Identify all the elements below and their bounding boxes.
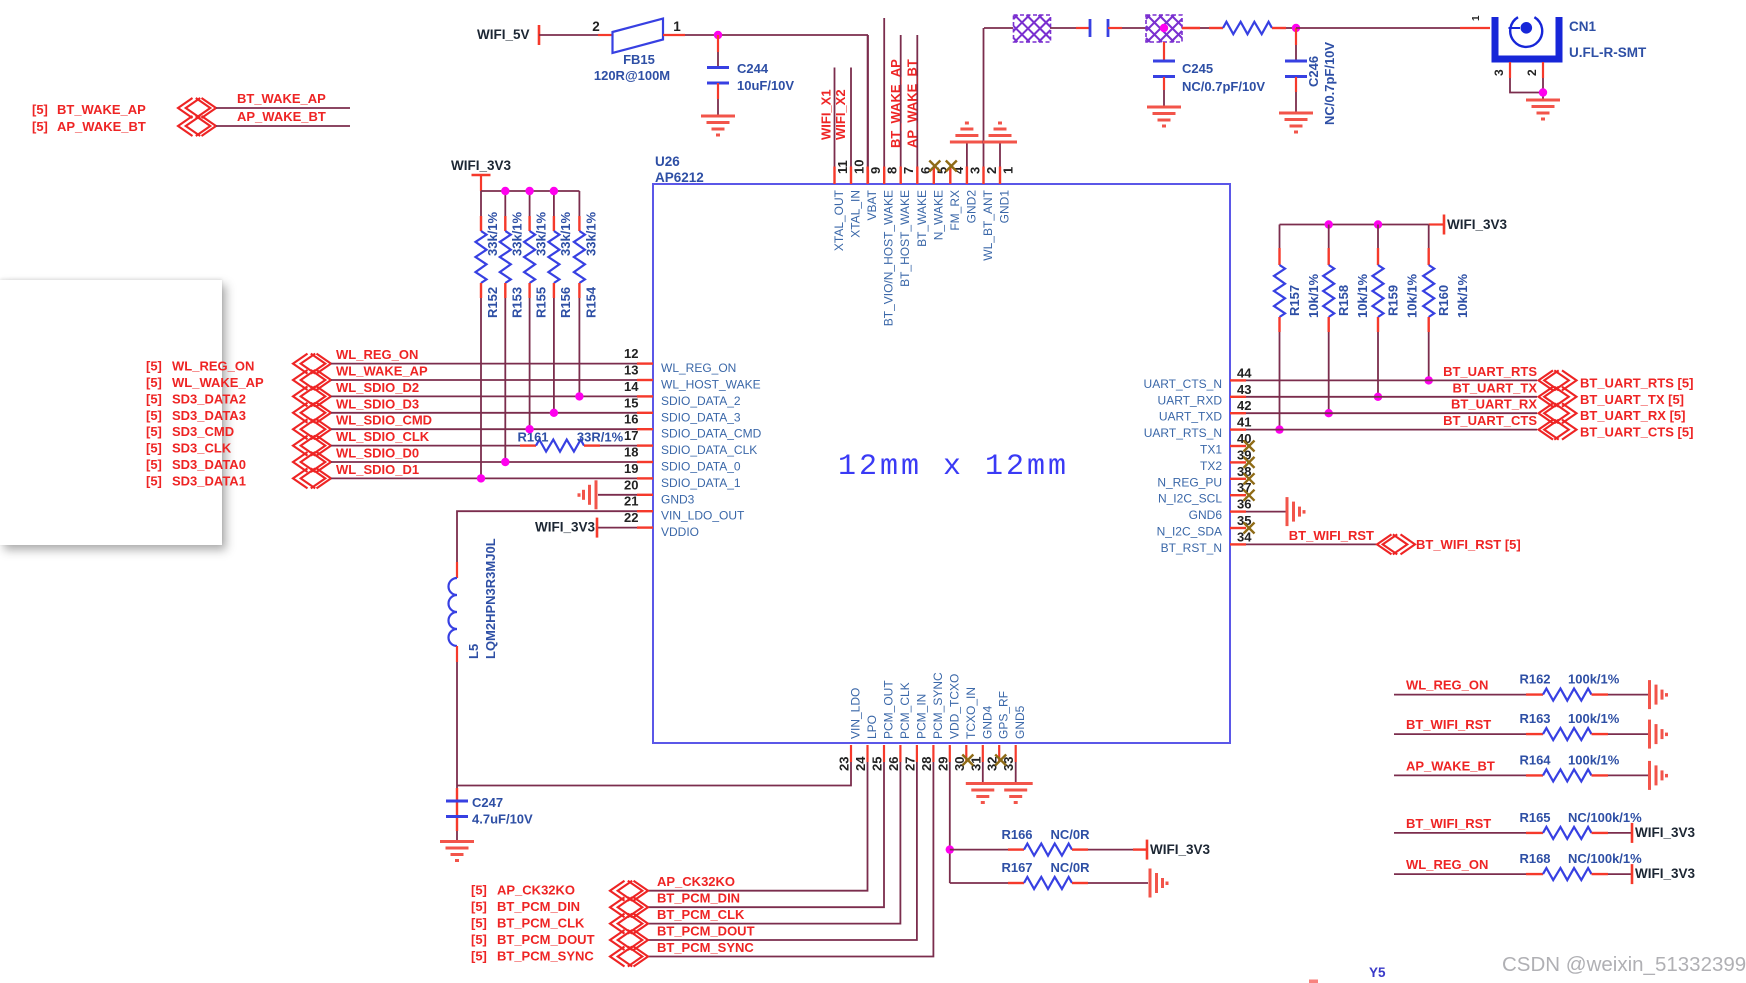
U26 pin 43 (UART_RXD)	[1230, 396, 1246, 398]
svg-text:BT_WAKE_AP: BT_WAKE_AP	[57, 102, 146, 117]
inductor L5 LQM2HPN3R3MJ0L	[456, 562, 458, 578]
svg-text:BT_PCM_DIN: BT_PCM_DIN	[657, 891, 740, 906]
U26 pin 33 (GND5)	[1015, 745, 1017, 762]
svg-text:WL_REG_ON: WL_REG_ON	[172, 359, 254, 374]
svg-text:BT_UART_RX: BT_UART_RX	[1451, 397, 1537, 412]
wire VDD_TCXO (pin 29) down to R166/R167	[949, 762, 951, 883]
wire WL_BT_ANT (pin 2)	[983, 28, 985, 167]
wire PCM_IN (pin 27) to BT_PCM_DOUT	[648, 762, 917, 940]
power flag WIFI_3V3 at R166	[1146, 840, 1149, 860]
svg-text:LQM2HPN3R3MJ0L: LQM2HPN3R3MJ0L	[483, 538, 498, 659]
resistor R158 10k/1%	[1328, 225, 1330, 249]
svg-text:9: 9	[868, 167, 883, 174]
wire XTAL_IN (pin 10) WIFI_X2	[850, 68, 852, 167]
resistor R154 33k/1%	[578, 191, 580, 216]
sideways ground at R167	[1150, 869, 1167, 898]
svg-text:BT_UART_TX: BT_UART_TX	[1452, 380, 1537, 395]
no-connect X pins 40,39,38,37,35	[1244, 441, 1255, 452]
ground below C247	[440, 842, 474, 861]
svg-text:12mm x 12mm: 12mm x 12mm	[838, 450, 1069, 484]
sideways ground at R162	[1650, 680, 1667, 709]
ground below C246	[1279, 113, 1313, 132]
IC U26 AP6212 body	[653, 184, 1230, 743]
series capacitor (antenna)	[1090, 19, 1108, 37]
svg-text:TX1: TX1	[1200, 443, 1222, 457]
svg-text:L5: L5	[466, 644, 481, 659]
svg-text:R154: R154	[583, 286, 598, 318]
resistor R165 NC/100k/1%	[1543, 827, 1592, 839]
svg-text:SD3_CMD: SD3_CMD	[172, 424, 234, 439]
svg-text:PCM_CLK: PCM_CLK	[898, 682, 912, 739]
svg-text:10k/1%: 10k/1%	[1355, 273, 1370, 318]
wire WL_SDIO_CLK	[331, 445, 520, 447]
resistor R163 100k/1%	[1543, 728, 1592, 740]
svg-text:R152: R152	[485, 287, 500, 318]
wire BT_UART_RTS	[1246, 379, 1537, 381]
svg-text:WIFI_3V3: WIFI_3V3	[1150, 842, 1211, 857]
svg-text:[5]: [5]	[146, 391, 162, 406]
svg-text:1: 1	[1471, 15, 1482, 21]
wire PCM_OUT (pin 25) to BT_PCM_DIN	[648, 762, 884, 907]
svg-text:PCM_OUT: PCM_OUT	[882, 680, 896, 739]
svg-text:BT_UART_RX [5]: BT_UART_RX [5]	[1580, 408, 1685, 423]
svg-text:R165: R165	[1519, 810, 1550, 825]
svg-text:33k/1%: 33k/1%	[485, 211, 500, 256]
svg-text:VDDIO: VDDIO	[661, 525, 699, 539]
svg-text:WIFI_3V3: WIFI_3V3	[1447, 217, 1508, 232]
wire WL_SDIO_D0	[331, 461, 637, 463]
no-connect X pin 32	[995, 755, 1006, 766]
ground above pin 3	[950, 123, 984, 142]
junction node CN1 ground	[1539, 88, 1547, 96]
svg-text:16: 16	[624, 412, 638, 427]
wire WIFI_5V to FB15	[539, 34, 598, 36]
ground below pin 33	[999, 784, 1033, 803]
U26 pin 24 (LPO)	[866, 745, 868, 762]
wire VDD_TCXO to R166	[950, 849, 1008, 851]
svg-text:VDD_TCXO: VDD_TCXO	[947, 674, 961, 739]
svg-text:13: 13	[624, 363, 638, 378]
ground below CN1	[1526, 100, 1560, 119]
svg-text:[5]: [5]	[146, 473, 162, 488]
svg-text:WL_WAKE_AP: WL_WAKE_AP	[172, 375, 264, 390]
svg-text:UART_CTS_N: UART_CTS_N	[1144, 377, 1222, 391]
svg-text:BT_VIO/N_HOST_WAKE: BT_VIO/N_HOST_WAKE	[882, 190, 896, 326]
U26 pin 29 (VDD_TCXO)	[949, 745, 951, 762]
U26 pin 1 (GND1)	[999, 167, 1001, 185]
U26 pin 35 (N_I2C_SDA)	[1230, 527, 1246, 529]
svg-text:R158: R158	[1336, 285, 1351, 316]
svg-text:11: 11	[835, 160, 850, 174]
svg-text:AP_WAKE_BT: AP_WAKE_BT	[905, 59, 920, 148]
svg-text:[5]: [5]	[471, 932, 487, 947]
svg-text:R168: R168	[1519, 851, 1550, 866]
U26 pin 21 (VIN_LDO_OUT)	[637, 510, 653, 512]
svg-text:40: 40	[1237, 431, 1251, 446]
svg-text:27: 27	[902, 757, 917, 771]
svg-text:1: 1	[1001, 167, 1016, 174]
svg-text:BT_PCM_SYNC: BT_PCM_SYNC	[497, 949, 594, 964]
resistor R155 33k/1%	[529, 191, 531, 216]
svg-text:WL_SDIO_D3: WL_SDIO_D3	[336, 396, 419, 411]
svg-text:BT_WAKE_AP: BT_WAKE_AP	[888, 59, 903, 148]
svg-text:BT_WIFI_RST: BT_WIFI_RST	[1289, 528, 1374, 543]
svg-text:[5]: [5]	[471, 883, 487, 898]
wire BT_UART_RX	[1246, 412, 1537, 414]
U26 pin 37 (N_I2C_SCL)	[1230, 494, 1246, 496]
U26 pin 2 (WL_BT_ANT)	[982, 167, 984, 185]
capacitor C245 NC/0.7pF/10V	[1163, 42, 1165, 61]
svg-text:12: 12	[624, 346, 638, 361]
wire XTAL_OUT (pin 11) WIFI_X1	[834, 68, 836, 167]
capacitor C244 10uF/10V	[717, 35, 719, 52]
pull-up bus wire	[481, 190, 579, 192]
svg-text:2: 2	[984, 167, 999, 174]
U26 pin 19 (SDIO_DATA_1)	[637, 477, 653, 479]
wire WL_SDIO_CMD	[331, 428, 637, 430]
wire WL_SDIO_D1	[331, 477, 637, 479]
svg-text:[5]: [5]	[146, 408, 162, 423]
svg-text:7: 7	[901, 167, 916, 174]
svg-text:AP_CK32KO: AP_CK32KO	[497, 883, 575, 898]
svg-text:WL_SDIO_D1: WL_SDIO_D1	[336, 462, 419, 477]
power flag WIFI_3V3 (UART bus)	[1443, 215, 1446, 235]
svg-text:BT_UART_CTS: BT_UART_CTS	[1443, 413, 1537, 428]
svg-text:33R/1%: 33R/1%	[577, 430, 624, 445]
resistor R156 33k/1%	[553, 191, 555, 216]
crystal Y5 partial mark	[1309, 980, 1318, 983]
antenna series inductor (zigzag)	[1209, 27, 1223, 29]
svg-text:WL_SDIO_D0: WL_SDIO_D0	[336, 446, 419, 461]
svg-text:WL_WAKE_AP: WL_WAKE_AP	[336, 364, 428, 379]
svg-text:BT_WIFI_RST: BT_WIFI_RST	[1406, 717, 1491, 732]
wire LPO (pin 24) to AP_CK32KO	[648, 762, 868, 891]
svg-text:BT_WIFI_RST: BT_WIFI_RST	[1406, 816, 1491, 831]
resistor R164 100k/1%	[1543, 769, 1592, 781]
svg-text:SD3_DATA1: SD3_DATA1	[172, 473, 246, 488]
svg-text:BT_UART_RTS: BT_UART_RTS	[1443, 364, 1537, 379]
svg-text:R167: R167	[1001, 860, 1032, 875]
wire WL_SDIO_D3	[331, 412, 637, 414]
CN1 pin 2	[1542, 62, 1544, 78]
wire GND4 (pin 31)	[982, 762, 984, 784]
svg-text:[5]: [5]	[32, 119, 48, 134]
wire AP_WAKE_BT	[216, 125, 350, 127]
svg-text:TCXO_IN: TCXO_IN	[964, 687, 978, 739]
svg-text:2: 2	[1525, 69, 1539, 76]
svg-text:4.7uF/10V: 4.7uF/10V	[472, 812, 533, 827]
wire PCM_SYNC (pin 28) to BT_PCM_SYNC	[648, 762, 933, 957]
svg-text:18: 18	[624, 445, 638, 460]
svg-text:2: 2	[592, 19, 600, 34]
wire GND2 (pin 3)	[966, 142, 968, 167]
svg-text:10k/1%: 10k/1%	[1455, 273, 1470, 318]
svg-text:33k/1%: 33k/1%	[583, 211, 598, 256]
svg-text:SDIO_DATA_3: SDIO_DATA_3	[661, 410, 741, 424]
wire WL_SDIO_D2	[331, 395, 637, 397]
svg-text:[5]: [5]	[32, 102, 48, 117]
U26 pin 44 (UART_CTS_N)	[1230, 379, 1246, 381]
svg-text:35: 35	[1237, 513, 1251, 528]
svg-text:WL_SDIO_D2: WL_SDIO_D2	[336, 380, 419, 395]
junction node VDD_TCXO/R166	[946, 845, 954, 853]
U26 pin 40 (TX1)	[1230, 445, 1246, 447]
junction nodes pull-ups to SDIO wires	[477, 474, 485, 482]
U26 pin 6 (BT_WAKE)	[916, 167, 918, 185]
svg-text:GPS_RF: GPS_RF	[997, 691, 1011, 739]
svg-text:N_REG_PU: N_REG_PU	[1157, 475, 1222, 489]
wire BT_UART_CTS	[1246, 429, 1537, 431]
svg-text:GND6: GND6	[1189, 508, 1223, 522]
svg-text:BT_HOST_WAKE: BT_HOST_WAKE	[898, 190, 912, 287]
U26 pin 23 (VIN_LDO)	[850, 745, 852, 762]
svg-text:SDIO_DATA_1: SDIO_DATA_1	[661, 476, 741, 490]
svg-text:AP_WAKE_BT: AP_WAKE_BT	[237, 109, 326, 124]
U26 pin 25 (PCM_OUT)	[883, 745, 885, 762]
wire	[1182, 27, 1200, 29]
power flag WIFI_3V3 at R168	[1631, 864, 1634, 884]
ferrite bead FB15	[613, 19, 664, 54]
svg-text:GND1: GND1	[998, 190, 1012, 224]
svg-text:VIN_LDO_OUT: VIN_LDO_OUT	[661, 509, 745, 523]
U26 pin 30 (TCXO_IN)	[965, 745, 967, 762]
svg-text:WL_BT_ANT: WL_BT_ANT	[981, 189, 995, 260]
wire GND5 (pin 33)	[1015, 762, 1017, 784]
svg-text:42: 42	[1237, 398, 1251, 413]
svg-text:WL_SDIO_CLK: WL_SDIO_CLK	[336, 429, 430, 444]
svg-text:R157: R157	[1287, 285, 1302, 316]
svg-text:Y5: Y5	[1369, 965, 1386, 980]
sideways ground GND6	[1287, 497, 1304, 526]
svg-text:24: 24	[853, 756, 868, 771]
wire PCM_CLK (pin 26) to BT_PCM_CLK	[648, 762, 900, 924]
svg-text:[5]: [5]	[146, 457, 162, 472]
wire WL_BT_ANT to antenna network	[984, 27, 1013, 29]
U26 pin 8 (BT_VIO/N_HOST_WAKE)	[883, 167, 885, 185]
wire BT_UART_TX	[1246, 396, 1537, 398]
svg-text:120R@100M: 120R@100M	[594, 68, 670, 83]
connector CN1 U.FL-R-SMT	[1495, 17, 1559, 59]
wire WL_REG_ON	[331, 363, 637, 365]
U26 pin 41 (UART_RTS_N)	[1230, 428, 1246, 430]
svg-text:AP_CK32KO: AP_CK32KO	[657, 874, 735, 889]
resistor R166 NC/0R	[1008, 848, 1024, 850]
svg-text:17: 17	[624, 428, 638, 443]
svg-text:SD3_DATA0: SD3_DATA0	[172, 457, 246, 472]
svg-text:R163: R163	[1519, 711, 1550, 726]
svg-text:BT_PCM_DIN: BT_PCM_DIN	[497, 899, 580, 914]
svg-text:PCM_SYNC: PCM_SYNC	[931, 672, 945, 739]
svg-text:WL_REG_ON: WL_REG_ON	[661, 361, 736, 375]
junction nodes on pull-up bus	[501, 187, 509, 195]
junction node at C245	[1160, 24, 1168, 32]
svg-text:XTAL_OUT: XTAL_OUT	[832, 189, 846, 251]
sideways ground at R163	[1650, 720, 1667, 749]
svg-text:SDIO_DATA_CLK: SDIO_DATA_CLK	[661, 443, 757, 457]
U26 pin 5 (N_WAKE)	[933, 167, 935, 185]
svg-text:100k/1%: 100k/1%	[1568, 752, 1620, 767]
svg-text:C245: C245	[1182, 61, 1213, 76]
svg-text:26: 26	[886, 757, 901, 771]
svg-text:BT_PCM_CLK: BT_PCM_CLK	[657, 907, 745, 922]
svg-text:R161: R161	[517, 430, 548, 445]
svg-text:WIFI_3V3: WIFI_3V3	[451, 158, 512, 173]
svg-text:WL_REG_ON: WL_REG_ON	[1406, 678, 1488, 693]
svg-text:WIFI_X1: WIFI_X1	[819, 89, 834, 140]
svg-text:1: 1	[673, 19, 681, 34]
U26 pin 34 (BT_RST_N)	[1230, 543, 1246, 545]
DNP matching component box 1	[1014, 15, 1051, 42]
power flag WIFI_3V3 at R165	[1631, 823, 1634, 843]
sideways ground GND3	[579, 480, 596, 509]
svg-text:N_I2C_SDA: N_I2C_SDA	[1157, 525, 1222, 539]
wire L5 to C247 node	[456, 662, 458, 788]
svg-text:FB15: FB15	[623, 52, 655, 67]
svg-text:BT_WAKE_AP: BT_WAKE_AP	[237, 91, 326, 106]
svg-text:NC/100k/1%: NC/100k/1%	[1568, 851, 1642, 866]
wire BT_RST_N to off-page BT_WIFI_RST	[1246, 543, 1377, 545]
svg-text:WIFI_3V3: WIFI_3V3	[535, 520, 596, 535]
resistor R153 33k/1%	[504, 191, 506, 216]
svg-text:44: 44	[1237, 365, 1252, 380]
resistor R168 NC/100k/1%	[1543, 868, 1592, 880]
svg-text:10k/1%: 10k/1%	[1405, 273, 1420, 318]
power flag WIFI_3V3 at VDDIO	[598, 527, 637, 529]
U26 pin 22 (VDDIO)	[637, 526, 653, 528]
capacitor C247 4.7uF/10V	[456, 798, 458, 831]
svg-text:R155: R155	[534, 287, 549, 318]
wire GND6 (pin 36)	[1246, 511, 1286, 513]
resistor R160 10k/1%	[1428, 225, 1430, 249]
svg-text:PCM_IN: PCM_IN	[914, 694, 928, 739]
svg-text:SDIO_DATA_2: SDIO_DATA_2	[661, 394, 741, 408]
svg-text:BT_PCM_SYNC: BT_PCM_SYNC	[657, 940, 754, 955]
svg-text:NC/100k/1%: NC/100k/1%	[1568, 810, 1642, 825]
U26 pin 42 (UART_TXD)	[1230, 412, 1246, 414]
resistor R152 33k/1%	[480, 191, 482, 216]
wire GND3 (pin 20)	[598, 494, 637, 496]
U26 pin 38 (N_REG_PU)	[1230, 478, 1246, 480]
popup overlay box	[0, 280, 222, 545]
svg-text:BT_PCM_DOUT: BT_PCM_DOUT	[657, 924, 755, 939]
no-connect X pin 5	[929, 161, 940, 172]
svg-text:GND2: GND2	[964, 190, 978, 224]
svg-text:AP6212: AP6212	[655, 170, 704, 185]
svg-text:NC/0R: NC/0R	[1050, 860, 1090, 875]
junction node at C246	[1292, 24, 1300, 32]
U26 pin 14 (SDIO_DATA_2)	[637, 395, 653, 397]
svg-text:33k/1%: 33k/1%	[534, 211, 549, 256]
svg-text:8: 8	[885, 167, 900, 174]
svg-text:[5]: [5]	[471, 899, 487, 914]
svg-text:BT_WIFI_RST [5]: BT_WIFI_RST [5]	[1416, 537, 1521, 552]
svg-text:UART_RTS_N: UART_RTS_N	[1144, 426, 1222, 440]
svg-text:R160: R160	[1436, 285, 1451, 316]
svg-text:41: 41	[1237, 415, 1251, 430]
svg-text:SD3_DATA2: SD3_DATA2	[172, 391, 246, 406]
svg-text:33k/1%: 33k/1%	[558, 211, 573, 256]
sideways ground at R164	[1650, 761, 1667, 790]
svg-text:VIN_LDO: VIN_LDO	[849, 688, 863, 739]
svg-text:WL_REG_ON: WL_REG_ON	[336, 347, 418, 362]
svg-text:NC/0R: NC/0R	[1050, 827, 1090, 842]
svg-text:R159: R159	[1386, 285, 1401, 316]
resistor R161 33R/1% in WL_SDIO_CLK	[520, 444, 536, 446]
svg-text:10k/1%: 10k/1%	[1306, 273, 1321, 318]
svg-text:29: 29	[935, 757, 950, 771]
wire	[1050, 27, 1076, 29]
svg-text:U.FL-R-SMT: U.FL-R-SMT	[1569, 45, 1647, 60]
U26 pin 18 (SDIO_DATA_0)	[637, 461, 653, 463]
wire FB15 to VBAT node	[663, 34, 685, 36]
resistor R157 10k/1%	[1279, 225, 1281, 249]
svg-text:XTAL_IN: XTAL_IN	[849, 190, 863, 238]
svg-text:[5]: [5]	[471, 949, 487, 964]
svg-text:FM_RX: FM_RX	[948, 190, 962, 231]
U26 pin 27 (PCM_IN)	[916, 745, 918, 762]
svg-text:CN1: CN1	[1569, 19, 1596, 34]
wire BT_HOST_WAKE (pin 7) net BT_WAKE_AP	[900, 35, 902, 167]
wire VDD_TCXO to R167	[950, 882, 1008, 884]
svg-text:23: 23	[837, 757, 852, 771]
off-page connector PCM group	[610, 881, 648, 967]
wire to CN1	[1296, 27, 1460, 29]
pull-up bus WIFI_3V3 (UART)	[1280, 224, 1429, 226]
U26 pin 10 (XTAL_IN)	[850, 167, 852, 185]
U26 pin 28 (PCM_SYNC)	[932, 745, 934, 762]
svg-text:[5]: [5]	[146, 359, 162, 374]
U26 pin 16 (SDIO_DATA_CMD)	[637, 428, 653, 430]
svg-text:CSDN @weixin_51332399: CSDN @weixin_51332399	[1502, 953, 1746, 976]
ground below C244	[701, 116, 735, 135]
wire BT_WAKE_AP	[216, 107, 350, 109]
off-page connector BT_WAKE_AP/AP_WAKE_BT	[178, 98, 216, 136]
svg-text:WIFI_3V3: WIFI_3V3	[1635, 825, 1696, 840]
svg-text:[5]: [5]	[146, 375, 162, 390]
svg-text:BT_UART_TX [5]: BT_UART_TX [5]	[1580, 392, 1684, 407]
U26 pin 26 (PCM_CLK)	[899, 745, 901, 762]
U26 pin 7 (BT_HOST_WAKE)	[900, 167, 902, 185]
svg-text:NC/0.7pF/10V: NC/0.7pF/10V	[1182, 79, 1265, 94]
svg-text:15: 15	[624, 395, 638, 410]
wire VIN_LDO (pin 23) to L5/C247 node	[457, 762, 851, 786]
wire WL_WAKE_AP	[331, 379, 637, 381]
svg-text:GND4: GND4	[980, 705, 994, 739]
wire BT_WAKE (pin 6) net AP_WAKE_BT	[916, 35, 918, 167]
resistor R167 NC/0R	[1008, 882, 1024, 884]
svg-text:NC/0.7pF/10V: NC/0.7pF/10V	[1322, 42, 1337, 125]
svg-text:TX2: TX2	[1200, 459, 1222, 473]
junction node WIFI_VBAT	[714, 31, 722, 39]
svg-text:WIFI_5V: WIFI_5V	[477, 27, 530, 42]
svg-text:14: 14	[624, 379, 639, 394]
svg-text:28: 28	[919, 757, 934, 771]
junction nodes pull-ups to UART wires	[1275, 425, 1283, 433]
svg-text:BT_RST_N: BT_RST_N	[1161, 541, 1222, 555]
junction nodes on UART bus	[1325, 220, 1333, 228]
off-page connector WL SDIO group	[293, 354, 331, 489]
svg-text:R153: R153	[509, 287, 524, 318]
svg-text:[5]: [5]	[146, 441, 162, 456]
svg-text:UART_TXD: UART_TXD	[1159, 410, 1222, 424]
svg-text:R164: R164	[1519, 752, 1551, 767]
resistor R162 100k/1%	[1543, 689, 1592, 701]
svg-text:10uF/10V: 10uF/10V	[737, 78, 794, 93]
svg-text:[5]: [5]	[471, 916, 487, 931]
svg-text:VBAT: VBAT	[865, 189, 879, 220]
svg-text:BT_PCM_CLK: BT_PCM_CLK	[497, 916, 585, 931]
svg-text:GND3: GND3	[661, 492, 695, 506]
